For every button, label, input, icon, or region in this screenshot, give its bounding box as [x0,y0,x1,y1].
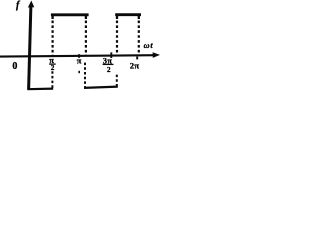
label 3pi/2 fraction [103,56,114,74]
low segment 1 right dashed edge below pi/2 label [51,71,53,88]
y-axis f (vertical line with arrow) [29,5,31,90]
low segment 2 left dashed edge below pi [84,63,86,88]
label pi/2 fraction [49,55,56,72]
low segment 2 (pi to 3pi/2, below axis) [84,87,118,88]
svg-text:ωt: ωt [144,41,154,50]
pulse 2 top segment (3pi/2 to 2pi) [115,13,141,16]
svg-text:0: 0 [12,61,17,72]
pulse 2 right dashed edge at 2pi [138,21,140,56]
svg-text:2: 2 [51,64,55,72]
low segment 1 (0 to pi/2, below axis) [28,87,54,90]
svg-text:2: 2 [107,65,111,74]
svg-text:π: π [77,56,82,66]
pulse 2 right corner stub [138,15,140,19]
tick at pi [78,54,80,58]
pulse 2 left dashed edge at 3pi/2 [116,21,118,56]
pulse 2 left corner stub [116,15,118,19]
x-axis arrowhead [153,52,160,58]
tick dash below axis at 2pi [136,57,138,60]
pulse 1 right corner stub [85,15,87,19]
stray dash below pi label [78,71,80,73]
x-axis wt (horizontal line with arrow) [0,55,157,56]
pulse 1 left corner stub [51,15,53,19]
pulse 1 top segment (pi/2 to pi) [51,13,89,16]
low segment 2 right dashed edge below 3pi/2 label [116,75,118,87]
pulse 1 left dashed edge at pi/2 [51,21,53,56]
pulse 1 right dashed edge at pi [85,21,87,56]
background [0,0,162,108]
y-axis arrowhead [28,1,34,8]
tick at 3pi/2 [110,52,112,58]
svg-text:2π: 2π [130,60,140,70]
